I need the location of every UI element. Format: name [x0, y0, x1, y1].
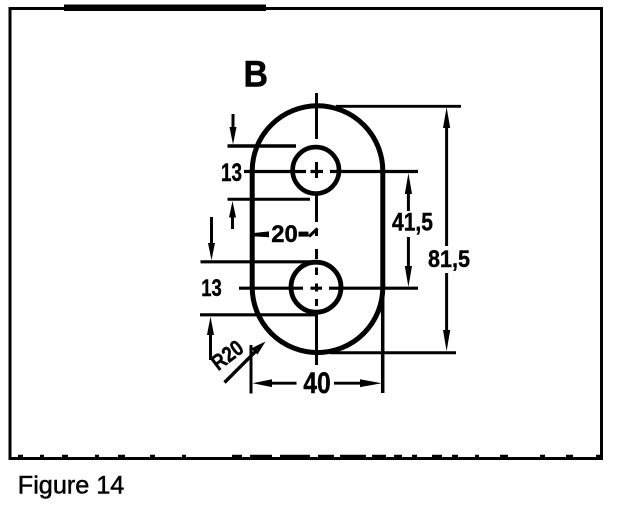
lower hole horizontal centerline / dim 41,5 bottom extension [239, 287, 418, 290]
dim 41,5: dimension line upper segment with up arrow [405, 173, 412, 194]
dim 13 lower: down arrow [210, 217, 213, 244]
dim 13 lower: extension line (hole top tangent) [201, 260, 313, 263]
frame top thick segment [64, 5, 266, 12]
svg-text:13: 13 [221, 159, 242, 187]
svg-text:81,5: 81,5 [428, 246, 470, 273]
dim 13 lower: up arrow [207, 317, 214, 336]
dim 40: dimension line left segment with arrow [253, 379, 273, 387]
dim 40: left extension line [250, 345, 253, 394]
dim 20: left arrow-dash [254, 231, 270, 237]
dim R20: leader arrowhead [251, 342, 266, 355]
dim R20: leader line [225, 347, 261, 383]
dim 81,5: bottom extension line [330, 351, 456, 354]
svg-text:40: 40 [303, 367, 331, 400]
dim 20: right dash [299, 232, 309, 237]
svg-text:20: 20 [271, 221, 298, 248]
dim 81,5: top extension line [336, 105, 461, 108]
hole H1 (upper, dia 13) [293, 147, 339, 193]
svg-text:B: B [244, 54, 269, 95]
svg-text:R20: R20 [206, 335, 248, 375]
dim 81,5: dimension line lower segment with down arrow [445, 273, 448, 332]
dim 13 upper: down arrow [232, 114, 235, 130]
dim 13 upper: extension line (hole top tangent) [228, 144, 297, 147]
dim 40: dimension line right segment with arrow [334, 382, 362, 385]
hole H2 (lower, dia 13) [291, 262, 341, 312]
frame bottom ticks [18, 455, 600, 458]
dim 20: oblique tick at centerline [309, 229, 318, 237]
dim 13 lower: extension line (hole bottom tangent) [200, 313, 318, 316]
dim 13 upper: extension line (hole bottom tangent) [228, 198, 311, 201]
dim 13 upper: up arrow [229, 201, 236, 218]
svg-text:13: 13 [201, 275, 222, 302]
vertical centerline [315, 93, 318, 365]
dim 81,5: dimension line upper segment with up arrow [443, 107, 450, 128]
dim 41,5: dimension line lower segment with down arrow [407, 237, 410, 268]
upper hole horizontal centerline / dim 41,5 top extension [244, 170, 418, 173]
plate outline (obround with R20 corners) [252, 106, 383, 353]
svg-text:41,5: 41,5 [392, 209, 433, 237]
dim 40: right extension line (continues plate edge) [381, 287, 385, 393]
svg-text:Figure 14: Figure 14 [18, 473, 125, 500]
